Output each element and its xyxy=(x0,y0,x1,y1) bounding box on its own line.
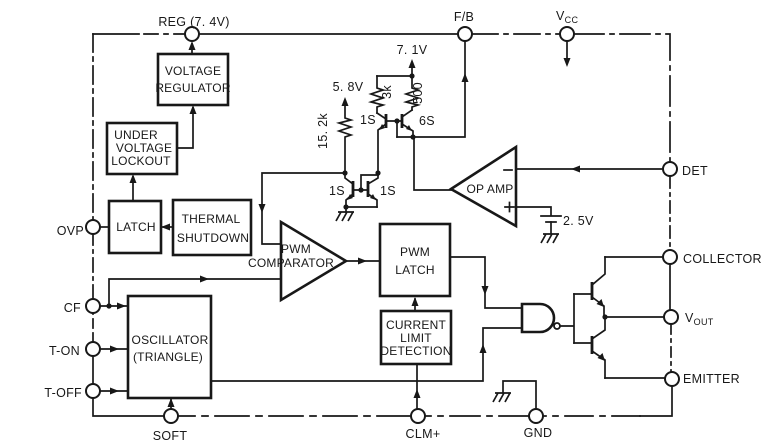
svg-text:1S: 1S xyxy=(360,113,376,127)
wire T-OFF to oscillator xyxy=(100,390,128,392)
border CF to OVP chain xyxy=(92,234,94,299)
wire THERMAL SHUTDOWN to LATCH xyxy=(163,226,173,228)
junction 6S emitter node xyxy=(410,134,415,139)
svg-text:7. 1V: 7. 1V xyxy=(397,43,428,57)
svg-text:500: 500 xyxy=(411,82,425,104)
ground mirror xyxy=(336,212,354,221)
junction mirror right top xyxy=(375,170,380,175)
resistor 3k branch xyxy=(371,76,383,113)
border bottom right chain xyxy=(543,415,640,417)
transistor 1S upper base bar xyxy=(385,114,388,128)
pin T-ON xyxy=(86,342,100,356)
ground near GND pin xyxy=(493,393,511,402)
wire EMITTER drop to bottom rail xyxy=(640,386,672,416)
wire T-ON to oscillator xyxy=(100,348,128,350)
wire 6S emitter rail to F/B riser xyxy=(397,41,465,137)
transistor output lower emitter xyxy=(592,351,605,378)
transistor output lower collector xyxy=(592,317,605,339)
svg-text:1S: 1S xyxy=(329,184,345,198)
gate NAND body xyxy=(522,304,554,332)
arrow PWM latch to NAND xyxy=(482,286,489,295)
svg-text:EMITTER: EMITTER xyxy=(683,372,740,386)
svg-text:REGULATOR: REGULATOR xyxy=(155,81,231,95)
transistor output upper emitter xyxy=(592,297,604,317)
arrow thermal shutdown to latch xyxy=(161,224,170,231)
wire REG to F/B solid top xyxy=(199,33,458,35)
transistor output lower base bar xyxy=(591,336,594,354)
junction mirror bases xyxy=(358,187,363,192)
block OSCILLATOR (TRIANGLE) xyxy=(128,296,211,398)
arrow oscillator to NAND xyxy=(480,344,487,353)
transistor 1S mirror-left collector xyxy=(345,173,353,184)
pin OVP xyxy=(86,220,100,234)
arrow output upper emitter xyxy=(597,299,605,307)
border GND to CLM+ chain xyxy=(426,415,529,417)
arrow Vcc stub xyxy=(564,58,571,67)
wire CURRENT LIMIT DETECTION to PWM LATCH xyxy=(414,299,416,311)
wire Vout rail xyxy=(605,316,664,318)
border Vcc to top-right corner chain xyxy=(574,34,670,162)
svg-text:LIMIT: LIMIT xyxy=(400,331,432,345)
svg-text:COMPARATOR: COMPARATOR xyxy=(248,256,334,270)
battery 2.5V plates xyxy=(541,216,561,222)
wire NAND output riser xyxy=(560,294,574,343)
transistor output upper collector xyxy=(592,257,605,285)
resistor 500 branch xyxy=(406,76,418,110)
pin DET xyxy=(663,162,677,176)
wire current mirror to comparator input xyxy=(262,173,345,244)
pin REG (7.4V) xyxy=(185,27,199,41)
wire 7.1V arrow stub xyxy=(411,63,413,76)
op-amp plus tick xyxy=(505,203,514,212)
svg-text:3k: 3k xyxy=(380,85,394,99)
wire CF node to comparator input xyxy=(109,279,281,306)
transistor 1S upper collector xyxy=(377,113,386,119)
junction 7.1V node xyxy=(409,73,414,78)
border left chain segment xyxy=(92,34,94,220)
svg-text:OSCILLATOR: OSCILLATOR xyxy=(132,333,209,347)
junction upper pair bases xyxy=(394,118,399,123)
pin Vout xyxy=(664,310,678,324)
svg-text:DETECTION: DETECTION xyxy=(380,344,451,358)
wire Vcc stub xyxy=(566,41,568,63)
wire op-amp plus input to 2.5V xyxy=(516,207,551,215)
wire NAND to upper base xyxy=(574,293,592,295)
ground 2.5V xyxy=(541,234,559,243)
gate NAND output bubble xyxy=(554,323,560,329)
border F/B to Vcc chain xyxy=(472,33,560,35)
arrow CF to comparator xyxy=(200,276,209,283)
junction mirror left top xyxy=(342,170,347,175)
arrow T-ON into oscillator xyxy=(110,346,119,353)
wire CLM+ to CURRENT LIMIT DETECTION xyxy=(416,364,418,409)
wire CF to oscillator xyxy=(100,305,128,307)
transistor output upper base bar xyxy=(591,282,594,300)
block CURRENT LIMIT DETECTION xyxy=(381,311,451,364)
svg-text:THERMAL: THERMAL xyxy=(182,212,241,226)
svg-text:SOFT: SOFT xyxy=(153,429,188,443)
svg-text:CURRENT: CURRENT xyxy=(386,318,447,332)
transistor 1S mirror-right base bar xyxy=(367,181,370,197)
svg-text:OVP: OVP xyxy=(57,224,84,238)
pin CF xyxy=(86,299,100,313)
wire mirror base to right collector loop xyxy=(361,175,378,190)
wire COLLECTOR to Vout solid xyxy=(669,264,671,310)
svg-text:UNDER: UNDER xyxy=(114,128,158,142)
svg-text:COLLECTOR: COLLECTOR xyxy=(683,252,762,266)
wire oscillator output to NAND input xyxy=(211,328,522,381)
svg-text:PWM: PWM xyxy=(281,242,311,256)
wire GND riser to internal ground xyxy=(503,381,536,409)
transistor 1S mirror-right emitter xyxy=(368,194,377,207)
border DET to COLLECTOR chain xyxy=(669,176,671,250)
pin GND xyxy=(529,409,543,423)
arrow 7.1V xyxy=(409,59,416,68)
arrow mirror to comparator xyxy=(259,204,266,213)
arrow DET to op-amp xyxy=(571,166,580,173)
svg-text:REG (7. 4V): REG (7. 4V) xyxy=(158,15,229,29)
transistor 6S base bar xyxy=(401,114,404,128)
wire 7.1V node rail xyxy=(377,75,412,77)
wire NAND to lower base xyxy=(574,342,592,344)
wire SOFT to bottom-left corner solid xyxy=(93,398,164,416)
block PWM LATCH xyxy=(380,224,450,296)
arrow latch to UVL xyxy=(130,174,137,183)
arrow F/B riser xyxy=(462,73,469,82)
arrow emitter mirror-right xyxy=(370,194,376,200)
arrow 5.8V xyxy=(342,97,349,106)
wire comparator output to PWM LATCH xyxy=(346,260,380,262)
svg-text:LOCKOUT: LOCKOUT xyxy=(111,154,171,168)
arrow CF into oscillator xyxy=(117,303,126,310)
wire collector rail of upper output transistor xyxy=(605,256,663,258)
comparator PWM triangle xyxy=(281,222,346,300)
block VOLTAGE REGULATOR xyxy=(158,54,228,105)
border Vout to EMITTER chain xyxy=(670,324,672,372)
svg-text:15. 2k: 15. 2k xyxy=(316,113,330,149)
transistor 1S mirror-left base bar xyxy=(352,181,355,197)
transistor 1S upper emitter xyxy=(378,124,386,172)
arrow CLD to PWM latch xyxy=(412,297,419,306)
wire DET to op-amp minus input xyxy=(516,168,663,170)
wire OVP to LATCH xyxy=(101,226,109,228)
pin T-OFF xyxy=(86,384,100,398)
arrow T-OFF into oscillator xyxy=(110,388,119,395)
pin EMITTER xyxy=(665,372,679,386)
pin CLM+ xyxy=(411,409,425,423)
wire 2.5V to ground xyxy=(550,222,552,233)
wire mirror emitter rail xyxy=(346,206,377,208)
pin SOFT xyxy=(164,409,178,423)
arrow into voltage regulator xyxy=(190,105,197,114)
transistor 6S collector xyxy=(402,110,412,117)
svg-text:LATCH: LATCH xyxy=(116,220,155,234)
border top-left chain segment xyxy=(93,33,185,35)
pin COLLECTOR xyxy=(663,250,677,264)
block UNDER VOLTAGE LOCKOUT xyxy=(107,123,177,174)
svg-text:(TRIANGLE): (TRIANGLE) xyxy=(133,350,203,364)
junction mirror emitter rail xyxy=(343,204,348,209)
arrow SOFT into oscillator xyxy=(168,398,175,407)
resistor 15.2k with 5.8V arrow xyxy=(339,101,351,173)
svg-text:CF: CF xyxy=(64,301,81,315)
transistor 6S emitter xyxy=(402,124,413,137)
svg-text:2. 5V: 2. 5V xyxy=(563,214,594,228)
pin F/B xyxy=(458,27,472,41)
wire T-OFF to T-ON solid xyxy=(92,356,94,384)
block LATCH xyxy=(109,201,161,253)
svg-text:LATCH: LATCH xyxy=(395,263,434,277)
wire mirror ground stub xyxy=(345,207,347,212)
wire bases of 1S/6S pair xyxy=(386,120,402,122)
svg-text:F/B: F/B xyxy=(454,10,474,24)
transistor 1S mirror-right collector xyxy=(368,173,378,184)
border T-ON to CF chain xyxy=(92,313,94,342)
arrow emitter 6S xyxy=(406,125,412,131)
border CLM+ to SOFT chain xyxy=(178,415,411,417)
arrow output lower emitter xyxy=(598,353,606,361)
wire bases node drop xyxy=(396,121,398,137)
svg-text:PWM: PWM xyxy=(400,245,430,259)
svg-text:GND: GND xyxy=(524,426,553,440)
arrow comparator to PWM latch xyxy=(358,258,367,265)
svg-text:1S: 1S xyxy=(380,184,396,198)
block THERMAL SHUTDOWN xyxy=(173,200,251,255)
svg-text:SHUTDOWN: SHUTDOWN xyxy=(177,231,249,245)
arrow emitter mirror-left xyxy=(347,194,353,200)
wire LATCH to UVL xyxy=(132,177,134,201)
op-amp U1 triangle xyxy=(451,147,516,226)
svg-text:DET: DET xyxy=(682,164,708,178)
svg-text:T-OFF: T-OFF xyxy=(44,386,82,400)
svg-text:CLM+: CLM+ xyxy=(406,427,441,441)
svg-text:VOLTAGE: VOLTAGE xyxy=(165,64,221,78)
svg-text:OP AMP: OP AMP xyxy=(467,182,514,196)
svg-text:6S: 6S xyxy=(419,114,435,128)
svg-text:VOLTAGE: VOLTAGE xyxy=(116,141,172,155)
arrow CLM+ to CLD xyxy=(414,389,421,398)
wire mirror bases xyxy=(353,189,368,191)
wire UVL to VOLTAGE REGULATOR xyxy=(177,108,193,148)
transistor 1S mirror-left emitter xyxy=(346,194,353,207)
wire REG riser from regulator xyxy=(191,44,193,54)
wire PWM LATCH to NAND input xyxy=(450,257,522,308)
svg-text:5. 8V: 5. 8V xyxy=(333,80,364,94)
junction CF node xyxy=(106,303,111,308)
arrow emitter 1S upper xyxy=(379,124,385,130)
wire emitter rail to EMITTER pin xyxy=(605,377,665,379)
junction Vout node xyxy=(602,314,607,319)
svg-text:T-ON: T-ON xyxy=(49,344,80,358)
arrow into REG pin xyxy=(189,41,196,50)
wire SOFT riser xyxy=(170,399,172,409)
wire op-amp output to 6S emitter node xyxy=(414,137,451,190)
pin Vcc xyxy=(560,27,574,41)
op-amp minus tick xyxy=(504,169,512,171)
